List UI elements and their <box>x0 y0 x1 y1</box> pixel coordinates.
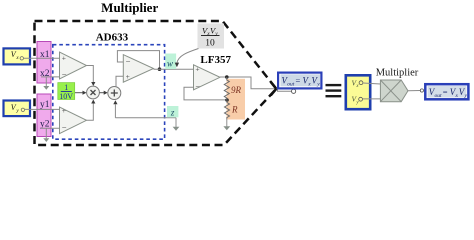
junction output node <box>225 75 229 79</box>
svg-text:−: − <box>62 69 67 79</box>
resistor R <box>225 100 230 119</box>
op-amp X diff <box>60 52 87 79</box>
svg-text:−: − <box>126 56 131 66</box>
svg-text:1: 1 <box>64 83 68 92</box>
ground R <box>226 119 228 127</box>
svg-text:+: + <box>62 106 66 115</box>
svg-text:y1: y1 <box>40 100 50 110</box>
svg-text:+: + <box>126 72 130 81</box>
wire mixer to output <box>408 90 420 92</box>
resistor 9R <box>224 77 229 100</box>
Vout box right <box>425 84 468 99</box>
source box right Vx Vy <box>346 75 370 109</box>
svg-text:−: − <box>195 81 200 91</box>
callout VxVy/10 <box>198 24 225 49</box>
svg-text:9R: 9R <box>231 85 242 95</box>
junction feedback node <box>225 98 229 102</box>
ground z <box>175 118 177 127</box>
wire X amp out to multiplier node <box>87 66 94 83</box>
wire w to LF357 <box>154 68 194 70</box>
wire Vx to mixer <box>363 83 381 84</box>
svg-text:+: + <box>195 65 199 74</box>
terminal circle output right <box>420 89 423 92</box>
wire z net <box>115 117 176 119</box>
wire summer to buffer input <box>116 76 123 86</box>
svg-text:R: R <box>231 105 238 115</box>
summer node circle <box>108 87 121 100</box>
junction w node <box>158 67 162 71</box>
buffer feedback wire <box>117 51 159 70</box>
svg-text:+: + <box>62 54 66 63</box>
pin box y1 y2 <box>37 94 51 137</box>
output terminal circle <box>292 89 296 93</box>
svg-text:Multiplier: Multiplier <box>101 0 158 15</box>
svg-text:=: = <box>296 76 301 86</box>
svg-text:out: out <box>287 82 295 88</box>
LF357 feedback wire <box>184 87 227 100</box>
svg-text:out: out <box>435 93 443 99</box>
svg-text:y: y <box>214 31 218 37</box>
svg-text:Multiplier: Multiplier <box>376 68 419 79</box>
terminal circle Vx <box>20 57 23 60</box>
svg-text:w: w <box>167 59 173 69</box>
ground y2 <box>45 128 47 138</box>
op-amp output buffer <box>123 55 153 83</box>
wire Vx to x1 input <box>24 57 60 59</box>
svg-text:y: y <box>464 93 468 99</box>
wire x2 input <box>41 76 60 78</box>
svg-text:−: − <box>62 122 67 132</box>
svg-text:10V: 10V <box>59 92 73 101</box>
wire Y amp out to multiplier node <box>87 103 94 120</box>
source Vy box <box>4 101 31 117</box>
source Vx box <box>4 48 31 64</box>
AD633 dashed box <box>53 45 165 140</box>
peach resistor background <box>227 79 246 120</box>
svg-text:=: = <box>443 87 448 97</box>
pin box x1 x2 <box>37 42 51 84</box>
node label w <box>165 54 176 70</box>
node label z <box>167 106 178 117</box>
gain block 1/10V <box>58 83 75 100</box>
op-amp LF357 <box>194 65 221 90</box>
op-amp Y diff <box>60 107 87 134</box>
Vout box left <box>278 73 321 89</box>
svg-text:y: y <box>316 82 320 88</box>
LF357 output wire <box>220 77 292 91</box>
ground x2 <box>45 77 47 86</box>
mixer block <box>380 80 408 102</box>
multiplier node circle <box>87 86 100 99</box>
arrow gain to multiplier <box>75 92 83 94</box>
equivalence symbol <box>326 84 342 86</box>
terminal circle Vy <box>21 108 24 111</box>
wire y2 input <box>41 127 60 129</box>
wire Vy to y1 input <box>25 108 60 110</box>
arrow multiplier to summer <box>99 92 104 94</box>
wire junction pentagon tip <box>271 82 277 89</box>
svg-text:AD633: AD633 <box>96 31 129 43</box>
callout leader arrow <box>177 49 199 64</box>
svg-text:10: 10 <box>205 38 215 48</box>
multiplier block outline (dashed pentagon) <box>35 21 277 145</box>
svg-text:z: z <box>170 107 175 117</box>
svg-text:LF357: LF357 <box>200 54 231 66</box>
wire Vy to mixer <box>363 98 381 100</box>
